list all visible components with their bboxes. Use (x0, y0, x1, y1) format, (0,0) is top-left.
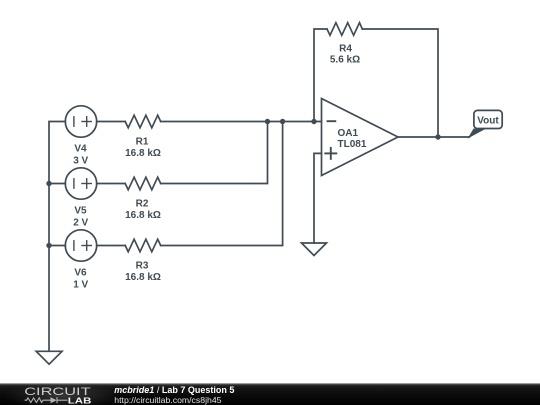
Vout flag box (474, 110, 502, 128)
op-amp plus symbol (325, 148, 336, 159)
svg-text:R1: R1 (136, 136, 149, 147)
label R2 (125, 198, 161, 221)
wire feedback right side down (362, 29, 438, 137)
svg-text:V4: V4 (74, 144, 87, 155)
wire V5 left lead (49, 183, 65, 185)
label V4 (73, 144, 88, 167)
label R1 (125, 136, 161, 159)
svg-text:mcbride1 / Lab 7 Question 5: mcbride1 / Lab 7 Question 5 (114, 385, 234, 395)
wire V5 right lead (97, 183, 126, 185)
junction node R2 join (265, 119, 270, 124)
svg-text:Vout: Vout (477, 116, 499, 127)
svg-text:http://circuitlab.com/cs8jh45: http://circuitlab.com/cs8jh45 (114, 395, 221, 405)
wire R1 output to op-amp minus (161, 121, 322, 123)
svg-text:R4: R4 (339, 43, 352, 54)
junction node output/feedback (435, 134, 440, 139)
svg-text:16.8 kΩ: 16.8 kΩ (125, 210, 161, 221)
svg-text:TL081: TL081 (338, 139, 367, 150)
label OA1 / TL081 (338, 128, 367, 150)
voltage source V6 (65, 230, 96, 261)
wire V6 right lead (97, 245, 126, 247)
svg-text:2 V: 2 V (73, 217, 88, 228)
svg-text:16.8 kΩ: 16.8 kΩ (125, 148, 161, 159)
footer bar (0, 383, 540, 405)
svg-text:R3: R3 (136, 260, 149, 271)
svg-text:3 V: 3 V (73, 155, 88, 166)
wire left column vertical (49, 122, 65, 352)
logo resistor zigzag + diode (25, 397, 68, 403)
Vout flag pointer (468, 129, 487, 139)
wire R3 output up to node (161, 122, 283, 246)
resistor R4 (327, 23, 362, 36)
svg-text:OA1: OA1 (338, 128, 359, 139)
logo diode triangle (51, 397, 57, 403)
wire V4 right lead (97, 121, 126, 123)
svg-text:V6: V6 (74, 267, 87, 278)
resistor R3 (125, 239, 161, 252)
junction node R3 join (280, 119, 285, 124)
junction node V6 tap (46, 243, 51, 248)
wire feedback loop (314, 29, 327, 122)
wire R2 output up to node (161, 122, 268, 184)
junction node V5 tap (46, 181, 51, 186)
voltage source V4 (65, 106, 96, 137)
resistor R2 (125, 177, 161, 190)
label R4 (330, 43, 360, 65)
svg-text:CIRCUIT: CIRCUIT (24, 385, 91, 398)
op-amp OA1 triangle (322, 99, 399, 176)
svg-text:V5: V5 (74, 205, 87, 216)
op-amp minus symbol (328, 120, 336, 122)
svg-text:LAB: LAB (68, 397, 92, 405)
wire op-amp output (398, 136, 469, 138)
svg-text:R2: R2 (136, 198, 149, 209)
ground (left) (36, 351, 62, 364)
resistor R1 (125, 115, 161, 128)
junction node inverting input (311, 119, 316, 124)
svg-text:1 V: 1 V (73, 279, 88, 290)
label R3 (125, 260, 161, 283)
label V5 (73, 205, 88, 228)
svg-text:16.8 kΩ: 16.8 kΩ (125, 272, 161, 283)
wire V6 left lead (49, 245, 65, 247)
voltage source V5 (65, 168, 96, 199)
label V6 (73, 267, 88, 290)
ground (op-amp plus) (302, 243, 327, 256)
svg-text:5.6 kΩ: 5.6 kΩ (330, 55, 360, 66)
wire op-amp plus input to ground (314, 153, 322, 243)
